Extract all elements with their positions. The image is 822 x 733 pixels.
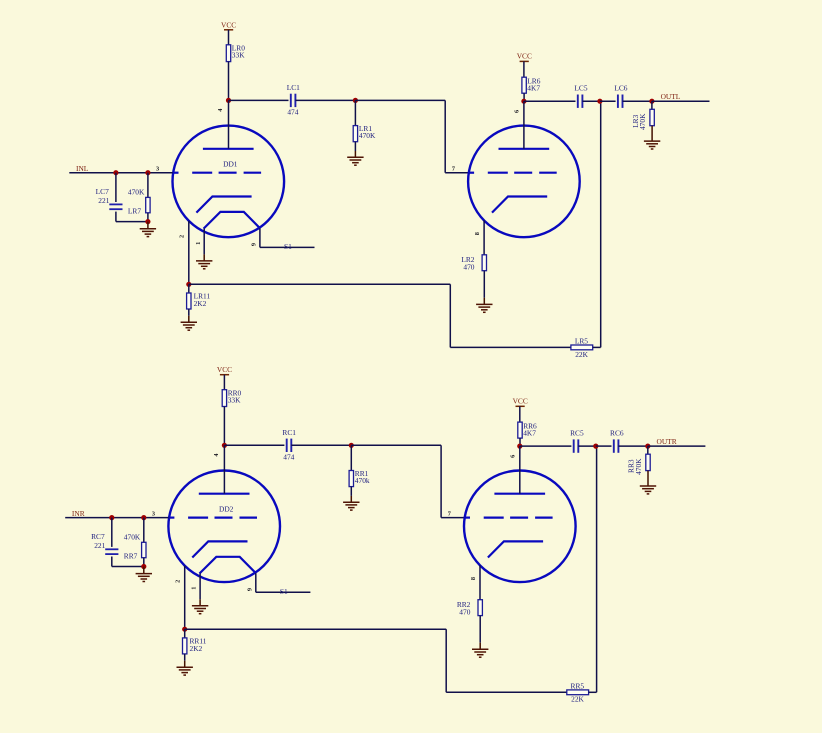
svg-text:INR: INR [72,509,85,518]
wire [647,446,649,454]
wire [223,445,225,493]
resistor RR0 [222,390,226,407]
svg-text:1: 1 [195,242,202,245]
resistor RR7 [142,542,146,557]
resistor LR3 [650,109,654,125]
wire [143,518,145,543]
ground [177,661,193,675]
node plate-1 R [222,443,227,448]
wire [450,346,571,348]
svg-text:221: 221 [94,541,105,550]
wire [479,616,481,643]
resistor LR1 [353,126,357,142]
wire [256,591,311,593]
svg-text:470K: 470K [128,187,145,196]
wire [520,445,572,447]
wire [188,221,190,284]
svg-text:RC5: RC5 [570,429,584,438]
node cathode-1 R [182,627,187,632]
svg-text:7: 7 [452,165,455,172]
svg-text:4: 4 [217,108,224,112]
node input-gnd L [145,219,150,224]
ground [644,126,660,149]
resistor RR11 [183,638,187,654]
ground [136,567,152,582]
wire [255,573,257,592]
wire [479,565,481,600]
svg-text:VCC: VCC [217,365,232,374]
wire [441,517,464,519]
svg-text:DD1: DD1 [223,160,238,169]
node input-b R [141,515,146,520]
svg-text:LC6: LC6 [614,84,627,93]
svg-text:RC6: RC6 [610,429,624,438]
wire [350,445,352,470]
svg-text:474: 474 [287,107,298,116]
wire [578,445,596,447]
wire [600,101,602,347]
svg-text:2K2: 2K2 [194,299,207,308]
svg-text:RC7: RC7 [91,532,105,541]
node grid-2 R [349,443,354,448]
wire [652,100,710,102]
wire [184,654,186,661]
wire [596,445,612,447]
node grid-2 L [353,98,358,103]
node output R [645,444,650,449]
capacitor LC1 [291,94,296,107]
wire [446,691,567,693]
wire [259,228,261,247]
triode DD2 (second half) [464,471,576,583]
capacitor LC7 [109,204,122,209]
svg-text:9: 9 [247,588,254,591]
svg-text:2: 2 [174,580,181,583]
wire [519,446,521,494]
svg-text:OUTR: OUTR [657,437,677,446]
wire [199,574,201,600]
wire [228,62,230,101]
wire [69,172,172,174]
resistor LR7 [146,197,150,212]
wire [651,101,653,109]
node plate-2 R [517,444,522,449]
svg-text:VCC: VCC [513,397,528,406]
capacitor RC7 [105,549,118,554]
wire [65,517,168,519]
wire [147,173,149,198]
triode DD2 (first half) [168,471,280,583]
power VCC net (R ch, stage 1) [217,365,232,375]
svg-text:8: 8 [474,232,481,235]
wire [188,309,190,316]
wire [188,284,190,293]
wire [354,100,356,125]
svg-text:INL: INL [76,164,89,173]
wire [184,566,186,629]
wire [203,229,205,255]
ground [192,599,208,613]
wire [355,99,445,101]
svg-text:4K7: 4K7 [523,428,536,437]
wire [143,558,145,567]
resistor RR2 [478,600,482,616]
svg-text:33K: 33K [228,396,241,405]
wire [519,438,521,446]
node input-a L [113,170,118,175]
wire [600,100,616,102]
svg-text:221: 221 [98,196,109,205]
wire [582,100,600,102]
svg-text:LC1: LC1 [287,83,300,92]
svg-text:470: 470 [463,263,474,272]
wire [354,142,356,151]
wire [223,375,225,390]
svg-text:470: 470 [459,607,470,616]
wire [228,30,230,45]
wire [483,220,485,255]
node input-b L [145,170,150,175]
node output L [649,99,654,104]
power VCC net (L ch, stage 1) [221,20,236,30]
wire [445,629,447,692]
node input-gnd R [141,564,146,569]
wire [223,407,225,446]
resistor LR11 [187,293,191,309]
wire [483,271,485,298]
ground [472,643,488,658]
capacitor RC5 [574,439,579,452]
node plate-2 L [521,99,526,104]
wire [260,246,315,248]
wire [184,629,186,638]
wire [291,444,351,446]
wire [185,628,447,630]
wire [524,100,576,102]
svg-text:470K: 470K [359,131,376,140]
wire [589,691,597,693]
node inter-cap R [593,444,598,449]
svg-text:22K: 22K [571,695,584,704]
wire [224,444,284,446]
triode DD1 (second half) [468,126,580,238]
ground [347,151,363,165]
wire [350,487,352,496]
power VCC net (R ch, stage 2) [513,397,528,407]
svg-text:VCC: VCC [517,52,532,61]
capacitor RC6 [614,439,619,452]
wire [228,100,230,148]
wire [351,444,441,446]
ground [343,496,359,510]
svg-text:4K7: 4K7 [527,83,540,92]
wire [445,172,468,174]
svg-text:8: 8 [470,577,477,580]
svg-text:470K: 470K [124,532,141,541]
node input-a R [109,515,114,520]
node inter-cap L [597,99,602,104]
svg-text:6: 6 [510,455,517,458]
wire [444,100,446,172]
svg-text:4: 4 [213,453,220,457]
wire [519,406,521,422]
wire [596,446,598,692]
wire [147,213,149,222]
svg-text:470K: 470K [638,113,647,130]
svg-text:3: 3 [152,510,155,517]
svg-text:470K: 470K [634,458,643,475]
svg-text:RR7: RR7 [124,552,138,561]
wire [523,93,525,101]
wire [229,99,289,101]
svg-text:2K2: 2K2 [190,644,203,653]
svg-text:VCC: VCC [221,20,236,29]
wire [618,445,647,447]
resistor RR3 [646,454,650,470]
svg-text:7: 7 [448,510,451,517]
ground [140,222,156,237]
svg-text:S1: S1 [280,587,288,596]
wire [523,101,525,149]
wire [115,212,117,222]
wire [189,283,451,285]
resistor RR1 [349,471,353,487]
resistor LR2 [482,255,486,271]
wire [116,221,148,223]
svg-text:LR5: LR5 [575,336,588,345]
svg-text:LC5: LC5 [574,84,587,93]
node cathode-1 L [186,282,191,287]
svg-text:RC1: RC1 [282,428,296,437]
svg-text:3: 3 [156,166,159,173]
capacitor LC6 [618,95,623,108]
resistor RR6 [518,422,522,438]
svg-text:1: 1 [191,587,198,590]
capacitor LC5 [578,95,583,108]
svg-text:470k: 470k [355,476,370,485]
svg-text:33K: 33K [232,51,245,60]
wire [440,445,442,517]
wire [295,99,355,101]
svg-text:22K: 22K [575,350,588,359]
power VCC net (L ch, stage 2) [517,52,532,62]
wire [523,61,525,77]
wire [648,445,706,447]
svg-text:S1: S1 [284,242,292,251]
ground [181,316,197,330]
svg-text:DD2: DD2 [219,505,234,514]
ground [640,471,656,494]
wire [111,518,113,547]
resistor LR0 [226,45,230,62]
wire [449,284,451,347]
svg-text:9: 9 [251,243,258,246]
resistor RR5 [567,690,589,695]
ground [476,298,492,313]
wire [112,566,144,568]
svg-text:LC7: LC7 [96,187,109,196]
svg-text:LR7: LR7 [128,207,141,216]
node plate-1 L [226,98,231,103]
svg-text:RR5: RR5 [571,681,585,690]
svg-text:474: 474 [283,452,294,461]
triode DD1 (first half) [173,126,285,238]
svg-text:OUTL: OUTL [661,92,681,101]
ground [196,254,212,268]
wire [111,557,113,567]
svg-text:6: 6 [514,110,521,113]
svg-text:2: 2 [178,235,185,238]
wire [115,173,117,202]
wire [623,100,652,102]
capacitor RC1 [287,439,292,452]
resistor LR6 [522,77,526,93]
resistor LR5 [571,345,593,350]
wire [593,346,601,348]
